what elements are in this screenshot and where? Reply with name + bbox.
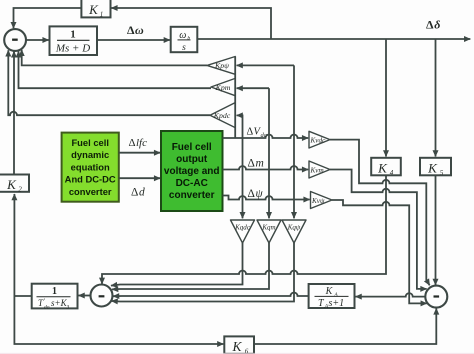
wire: Kp-psi output to S1 [22, 50, 207, 66]
label delta-d [131, 187, 145, 199]
svg-text:And DC-DC: And DC-DC [65, 174, 116, 185]
wire: K1 output down to summing junction S1 [14, 8, 82, 28]
svg-text:K: K [427, 160, 438, 175]
gain bus for Kp triangles [234, 57, 236, 139]
svg-text:Ms + D: Ms + D [55, 43, 90, 55]
wire: K4 output down, left with hops, into S3 top [102, 175, 386, 284]
bottom edge artifact [0, 352, 474, 354]
summing junction S2 [425, 286, 447, 308]
svg-text:output: output [176, 154, 208, 165]
svg-text:Δ: Δ [248, 158, 255, 170]
wire: Kvpsi route to S2 lower-left [332, 200, 427, 303]
svg-text:d: d [139, 187, 145, 199]
wire: junction down to bottom line, into K6 [14, 296, 223, 344]
block K5 [420, 158, 451, 177]
svg-text:3: 3 [66, 304, 70, 310]
svg-text:Δ: Δ [426, 18, 434, 32]
summing junction S3 [91, 285, 113, 307]
svg-text:1: 1 [52, 286, 57, 297]
svg-text:s+1: s+1 [329, 298, 345, 309]
block omega_b/s [171, 27, 198, 53]
gain Kqpsi [282, 220, 306, 243]
summing junction S1 [4, 29, 26, 51]
svg-text:K: K [6, 177, 17, 192]
block K4 [371, 158, 401, 177]
wire: delta-psi output line to Kvpsi [223, 196, 310, 200]
svg-text:K: K [231, 339, 242, 354]
wire: dc tap vertical lower to Kqdc [242, 138, 244, 218]
svg-text:Kqm: Kqm [261, 223, 275, 231]
label delta-delta [426, 18, 440, 32]
wire: delta-Ifc arrow box1 to box2 [119, 152, 160, 154]
wire: K5 output down into S2 top [435, 175, 437, 285]
svg-text:b: b [187, 36, 190, 42]
svg-text:DC-AC: DC-AC [176, 178, 208, 189]
gain Kvpsi [311, 192, 333, 209]
wire: delta-Vdc output line to Kvdc [223, 135, 309, 139]
svg-text:4: 4 [390, 169, 394, 177]
svg-text:K: K [325, 286, 334, 297]
gain Kvdc [309, 131, 330, 148]
wire: Kqdc output to S3 [111, 243, 243, 286]
svg-text:Δ: Δ [248, 188, 255, 200]
wire: Kpm output to S1 [19, 51, 212, 88]
svg-text:dc: dc [261, 132, 267, 139]
block KA/(TAs+1) [309, 284, 355, 310]
svg-text:ω: ω [135, 23, 144, 37]
svg-text:Kvdc: Kvdc [310, 136, 327, 144]
wire: delta-omega line to omega/s block [97, 39, 170, 41]
block 1/(Ms+D) [50, 26, 98, 55]
svg-text:δ: δ [434, 18, 440, 32]
svg-text:s: s [182, 43, 186, 53]
wire: m tap vertical lower to Kqm [268, 170, 270, 219]
wire: S2 output left to KA block (hop) [356, 293, 426, 297]
wire: tap down to K5 [435, 39, 437, 157]
green box: fuel cell dynamic equation and DC-DC converter [62, 133, 119, 202]
svg-text:equation: equation [71, 161, 110, 172]
wire: Kvdc route to S2 top-left [330, 140, 430, 286]
svg-text:converter: converter [169, 190, 215, 201]
svg-text:Kpψ: Kpψ [214, 61, 229, 70]
block K1 [81, 0, 110, 19]
wire: Kqm output to S3 [112, 243, 269, 289]
svg-text:1: 1 [70, 29, 76, 41]
wire: psi tap vertical lower to Kqpsi [293, 200, 295, 219]
svg-text:lfc: lfc [136, 137, 147, 149]
gain Kpm [211, 78, 235, 95]
block 1/(T'dos+K3) [32, 284, 78, 311]
svg-text:Kqdc: Kqdc [234, 223, 251, 231]
label delta-Ifc [129, 137, 148, 149]
svg-text:m: m [256, 158, 264, 170]
wire: delta-delta tap up to K1 input [111, 8, 271, 39]
svg-text:dynamic: dynamic [71, 149, 109, 160]
green box: fuel cell output voltage and DC-AC converter [161, 131, 223, 211]
svg-text:s+K: s+K [51, 298, 68, 308]
gain Kqm [257, 220, 281, 243]
wire: psi tap vertical upper [293, 65, 295, 199]
wire: K6 output right and up into S2 bottom [254, 308, 436, 344]
svg-text:Kvm: Kvm [310, 166, 324, 174]
label delta-psi [248, 188, 264, 200]
svg-text:Fuel cell: Fuel cell [172, 142, 212, 153]
block K2 [0, 175, 29, 194]
wire: delta-d arrow box1 to box2 [119, 177, 160, 179]
wire: delta-delta output line [197, 38, 470, 40]
wire: KA output left to S3 (hop over Kqpsi line) [113, 293, 309, 297]
wire: K2 output up into S1 [13, 51, 15, 174]
svg-text:K: K [88, 2, 99, 17]
wire: delta-m output line to Kvm [223, 166, 309, 170]
gain Kp-psi [207, 57, 235, 75]
wire: Kpm input from m tap [237, 87, 269, 89]
svg-text:voltage and: voltage and [164, 166, 220, 177]
block K6 [224, 336, 254, 354]
wire: Kqpsi output to S3 [112, 243, 295, 302]
svg-text:do: do [44, 304, 50, 310]
wire: S1 to block 1/(Ms+D) [26, 39, 49, 41]
wire: block output to K2 and down to K6 line [14, 194, 31, 296]
svg-text:Kpdc: Kpdc [213, 111, 231, 120]
svg-text:1: 1 [100, 11, 104, 19]
svg-text:K: K [377, 160, 388, 175]
wire: Kvm route to S2 left [330, 170, 427, 289]
wire: Kpdc input from dc tap [237, 115, 243, 138]
svg-text:Δ: Δ [131, 187, 138, 199]
svg-text:5: 5 [440, 169, 444, 177]
svg-text:Δ: Δ [247, 127, 254, 138]
label delta-omega [127, 23, 144, 37]
svg-text:converter: converter [69, 186, 112, 197]
gain Kqdc [231, 220, 255, 243]
svg-text:Kvψ: Kvψ [311, 197, 325, 205]
gain Kvm [309, 161, 330, 178]
svg-text:Kqψ: Kqψ [287, 223, 301, 231]
label delta-m [248, 158, 264, 170]
label delta-Vdc [247, 127, 267, 140]
svg-text:ω: ω [179, 30, 186, 41]
wire: tap down to K4 [385, 39, 387, 157]
wire: Kp-psi input from psi tap [237, 64, 294, 66]
wire: m tap vertical upper [268, 88, 270, 169]
svg-text:Δ: Δ [129, 137, 136, 149]
wire: Kpdc output to S1 (hop over K2 line) [8, 50, 210, 115]
svg-text:Kpm: Kpm [215, 83, 231, 92]
wire: S3 output to 1/(T'dos+K3) block [79, 295, 91, 297]
gain Kpdc [210, 103, 235, 128]
svg-text:ψ: ψ [256, 188, 264, 200]
svg-text:Δ: Δ [127, 23, 135, 37]
svg-text:2: 2 [18, 186, 22, 194]
svg-text:Fuel cell: Fuel cell [71, 137, 109, 148]
